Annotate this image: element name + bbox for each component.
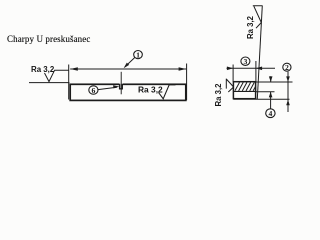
width dimension line bbox=[227, 67, 276, 69]
balloon 1 leader bbox=[125, 57, 135, 66]
svg-text:Ra 3,2: Ra 3,2 bbox=[31, 65, 55, 74]
right extension line bbox=[186, 64, 188, 101]
balloon 3 circle bbox=[241, 57, 250, 65]
balloon 6 leader arrowhead bbox=[113, 85, 119, 88]
centerline through notch bbox=[120, 72, 122, 95]
svg-text:4: 4 bbox=[268, 109, 272, 118]
specimen body (side view rectangle) bbox=[70, 84, 186, 100]
notch depth top arrowhead (down) bbox=[269, 76, 273, 82]
balloon 2 circle bbox=[283, 63, 291, 71]
svg-text:2: 2 bbox=[285, 63, 289, 72]
height dim top arrowhead (down) bbox=[286, 76, 290, 82]
height dim line bbox=[287, 72, 289, 112]
left dimension arrowhead bbox=[70, 67, 78, 71]
height dim bottom arrowhead (up) bbox=[286, 100, 290, 106]
svg-text:Ra 3,2: Ra 3,2 bbox=[246, 15, 255, 39]
svg-text:3: 3 bbox=[243, 57, 247, 66]
balloon 6 circle bbox=[89, 86, 98, 94]
top edge extension right bbox=[256, 81, 293, 83]
roughness symbol left (check mark) bbox=[45, 70, 69, 81]
notch gap (white cut in top edge) bbox=[119, 83, 123, 86]
vertical surface line (right of section) bbox=[257, 6, 262, 100]
svg-text:6: 6 bbox=[91, 86, 95, 95]
dimension line (length) bbox=[70, 68, 186, 70]
divider line in section bbox=[233, 90, 255, 92]
svg-text:1: 1 bbox=[136, 50, 140, 59]
balloon 1 leader arrowhead bbox=[124, 63, 130, 69]
divider extension right bbox=[256, 91, 275, 93]
balloon 6 leader bbox=[98, 87, 117, 89]
notch depth bottom arrowhead (up) bbox=[269, 92, 273, 98]
bottom edge extension right bbox=[233, 98, 289, 100]
notch walls bbox=[120, 84, 123, 89]
right dimension arrowhead bbox=[179, 67, 187, 71]
left extension line bbox=[68, 65, 70, 100]
section square bbox=[233, 82, 255, 99]
width dim right arrowhead (outside) bbox=[256, 67, 262, 71]
roughness symbol top (rotated check mark) bbox=[253, 6, 262, 28]
notch depth dim line bbox=[270, 76, 272, 109]
hatch lines bbox=[235, 82, 256, 91]
roughness symbol inside specimen (check mark) bbox=[159, 85, 176, 99]
width dim left arrowhead (outside) bbox=[227, 67, 233, 71]
width dim extension lines bbox=[233, 61, 256, 82]
title text bbox=[7, 34, 90, 44]
roughness symbol left face (rotated check mark) bbox=[226, 79, 233, 92]
balloon 4 circle bbox=[266, 109, 275, 118]
svg-text:Ra 3,2: Ra 3,2 bbox=[214, 83, 223, 107]
surface line left of specimen bbox=[29, 82, 70, 84]
svg-text:Ra 3,2: Ra 3,2 bbox=[138, 84, 163, 94]
balloon 1 circle bbox=[134, 51, 143, 59]
